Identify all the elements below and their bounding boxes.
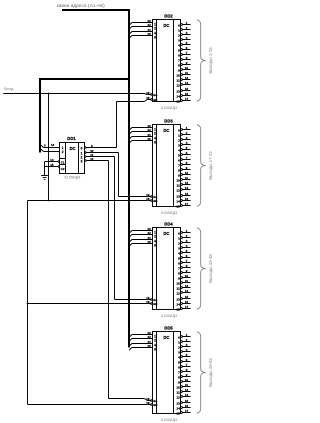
svg-text:15: 15 xyxy=(185,295,189,299)
svg-text:14: 14 xyxy=(185,289,189,293)
svg-text:11: 11 xyxy=(185,71,188,75)
svg-text:DC: DC xyxy=(163,23,169,28)
svg-text:4: 4 xyxy=(178,44,180,48)
label К155ИД4 xyxy=(65,176,81,180)
pin number 3 xyxy=(44,143,46,147)
svg-text:12: 12 xyxy=(176,396,180,400)
svg-text:10: 10 xyxy=(176,282,180,286)
svg-text:4: 4 xyxy=(178,149,180,153)
brace for DD5 outputs xyxy=(197,332,206,414)
svg-text:BA: BA xyxy=(153,93,157,97)
svg-text:16: 16 xyxy=(185,300,189,304)
svg-text:12: 12 xyxy=(90,157,94,161)
svg-text:2: 2 xyxy=(154,339,156,343)
svg-text:8: 8 xyxy=(154,244,156,248)
wire: DD1 out3 to DD5 strobe (down at x108) xyxy=(86,161,147,401)
svg-text:10: 10 xyxy=(176,386,180,390)
label DD4 xyxy=(164,222,173,227)
svg-text:5: 5 xyxy=(178,154,180,158)
svg-text:15: 15 xyxy=(50,163,54,167)
svg-text:14: 14 xyxy=(176,303,180,307)
svg-text:17: 17 xyxy=(185,202,189,206)
svg-text:16: 16 xyxy=(185,92,189,96)
svg-text:5: 5 xyxy=(178,361,180,365)
svg-text:10: 10 xyxy=(185,66,189,70)
svg-text:15: 15 xyxy=(185,192,189,196)
svg-text:22: 22 xyxy=(147,335,151,339)
net label Выходы 33-48 xyxy=(208,254,213,283)
svg-text:16: 16 xyxy=(185,197,189,201)
svg-text:6: 6 xyxy=(178,54,180,58)
svg-text:DD4: DD4 xyxy=(164,222,173,227)
label К155ИД3 under DD4 xyxy=(161,314,177,318)
wire: Вход horizontal to DD4 pin 18 xyxy=(28,303,148,305)
label К155ИД3 under DD2 xyxy=(161,106,177,110)
svg-text:20: 20 xyxy=(147,137,151,141)
svg-text:2: 2 xyxy=(178,242,180,246)
svg-text:3: 3 xyxy=(178,351,180,355)
wire: DD1 address input A (pin 13) xyxy=(41,145,60,148)
svg-text:11: 11 xyxy=(177,79,181,83)
svg-text:16: 16 xyxy=(185,404,189,408)
svg-text:DD3: DD3 xyxy=(164,119,173,124)
svg-text:15: 15 xyxy=(176,205,180,209)
wire: DD1 address input B (pin 3) xyxy=(41,149,60,152)
svg-text:13: 13 xyxy=(185,284,189,288)
pin number 13 xyxy=(51,143,55,147)
node: junction at (48.5,200.5) xyxy=(48,200,50,202)
svg-text:2: 2 xyxy=(178,139,180,143)
svg-text:10: 10 xyxy=(176,74,180,78)
svg-text:9: 9 xyxy=(178,69,180,73)
svg-text:Выходы 1-16: Выходы 1-16 xyxy=(208,47,213,74)
svg-text:DC: DC xyxy=(70,146,76,151)
net label Выходы 17-32 xyxy=(208,151,213,180)
svg-text:BB: BB xyxy=(153,403,157,407)
svg-text:DC: DC xyxy=(163,231,169,236)
label DD1 xyxy=(67,136,76,141)
svg-text:0: 0 xyxy=(178,129,180,133)
svg-text:13: 13 xyxy=(185,181,189,185)
svg-text:3: 3 xyxy=(178,144,180,148)
svg-text:1: 1 xyxy=(178,134,180,138)
svg-text:13: 13 xyxy=(185,388,189,392)
svg-text:14: 14 xyxy=(50,158,54,162)
decoder DD2 body (К155ИД3) xyxy=(129,19,190,104)
svg-text:К155ИД3: К155ИД3 xyxy=(161,418,177,422)
svg-text:0: 0 xyxy=(178,24,180,28)
svg-text:10: 10 xyxy=(185,274,189,278)
svg-text:11: 11 xyxy=(185,279,188,283)
brace for DD2 outputs xyxy=(197,20,206,102)
ground xyxy=(41,176,48,180)
svg-text:19: 19 xyxy=(146,91,150,95)
wire: Вход horizontal to DD5 pin 18 xyxy=(28,404,148,406)
svg-text:20: 20 xyxy=(147,344,151,348)
svg-text:8: 8 xyxy=(154,36,156,40)
svg-text:13: 13 xyxy=(51,143,55,147)
svg-text:18: 18 xyxy=(146,401,150,405)
node: junction at (27.5,303.5) xyxy=(27,303,29,305)
svg-text:10: 10 xyxy=(176,179,180,183)
svg-text:0: 0 xyxy=(178,232,180,236)
svg-text:13: 13 xyxy=(185,76,189,80)
label DD3 xyxy=(164,119,173,124)
svg-text:К155ИД3: К155ИД3 xyxy=(161,106,177,110)
svg-text:8: 8 xyxy=(178,272,180,276)
svg-text:14: 14 xyxy=(176,407,180,411)
svg-text:14: 14 xyxy=(176,95,180,99)
svg-text:8: 8 xyxy=(154,141,156,145)
net label: Шина адреса (А1-А6) xyxy=(57,3,105,8)
label DD5 xyxy=(164,326,173,331)
svg-text:15: 15 xyxy=(176,100,180,104)
wire: Вход horizontal to DD2 pin 19 xyxy=(3,94,147,95)
svg-text:6: 6 xyxy=(178,366,180,370)
svg-text:0: 0 xyxy=(178,336,180,340)
label К155ИД3 under DD5 xyxy=(161,418,177,422)
svg-text:Выходы 17-32: Выходы 17-32 xyxy=(208,151,213,180)
svg-text:BB: BB xyxy=(153,98,157,102)
wire: DD1 strobes to ground xyxy=(44,162,46,176)
svg-text:7: 7 xyxy=(178,164,180,168)
wire: DD1 out2 to DD4 strobe (down at x114) xyxy=(86,157,147,300)
wire: Вход vertical drop x27 xyxy=(27,201,29,405)
svg-text:20: 20 xyxy=(147,32,151,36)
wire: Вход vertical drop x48 xyxy=(48,94,50,201)
label К155ИД3 under DD3 xyxy=(161,211,177,215)
svg-text:13: 13 xyxy=(176,90,180,94)
net label Выходы 49-64 xyxy=(208,358,213,387)
svg-text:DC: DC xyxy=(163,128,169,133)
svg-text:8: 8 xyxy=(154,348,156,352)
svg-text:7: 7 xyxy=(178,267,180,271)
pin: DD1 strobe 14 with inversion circle xyxy=(45,158,60,163)
node: Вход branch junction xyxy=(48,93,50,95)
svg-text:4: 4 xyxy=(178,356,180,360)
brace for DD4 outputs xyxy=(197,228,206,310)
svg-text:DC: DC xyxy=(163,335,169,340)
svg-text:5: 5 xyxy=(178,257,180,261)
decoder DD1 body (К155ИД4) xyxy=(60,143,85,174)
svg-text:2: 2 xyxy=(178,34,180,38)
svg-text:11: 11 xyxy=(177,287,181,291)
svg-text:DD5: DD5 xyxy=(164,326,173,331)
decoder DD5 body (К155ИД3) xyxy=(129,331,190,416)
svg-text:14: 14 xyxy=(185,393,189,397)
svg-text:11: 11 xyxy=(185,383,188,387)
svg-text:5: 5 xyxy=(178,49,180,53)
svg-text:11: 11 xyxy=(177,391,181,395)
pins: DD1 outputs 0-3 with circles and pin numbers xyxy=(81,144,94,164)
svg-text:7: 7 xyxy=(178,59,180,63)
bus: address branch to DD1 vertical xyxy=(39,78,41,153)
svg-text:10: 10 xyxy=(185,378,189,382)
svg-text:12: 12 xyxy=(176,292,180,296)
svg-text:18: 18 xyxy=(146,197,150,201)
svg-text:14: 14 xyxy=(185,81,189,85)
svg-text:C2: C2 xyxy=(61,167,65,171)
net label: Вход xyxy=(4,86,14,91)
svg-text:3: 3 xyxy=(178,247,180,251)
svg-text:15: 15 xyxy=(176,412,180,416)
svg-text:14: 14 xyxy=(185,186,189,190)
svg-text:18: 18 xyxy=(146,96,150,100)
svg-text:К155ИД3: К155ИД3 xyxy=(161,211,177,215)
svg-text:9: 9 xyxy=(178,174,180,178)
svg-text:14: 14 xyxy=(176,200,180,204)
svg-text:20: 20 xyxy=(147,240,151,244)
svg-text:2: 2 xyxy=(62,150,64,154)
svg-text:1: 1 xyxy=(178,29,180,33)
decoder DD4 body (К155ИД3) xyxy=(129,227,190,312)
svg-text:8: 8 xyxy=(178,376,180,380)
svg-text:9: 9 xyxy=(178,381,180,385)
svg-text:DD2: DD2 xyxy=(164,14,173,19)
svg-text:3: 3 xyxy=(81,160,83,164)
svg-text:К155ИД3: К155ИД3 xyxy=(161,314,177,318)
svg-text:17: 17 xyxy=(185,97,189,101)
svg-text:10: 10 xyxy=(185,171,189,175)
svg-text:Выходы 33-48: Выходы 33-48 xyxy=(208,254,213,283)
svg-text:22: 22 xyxy=(147,128,151,132)
svg-text:2: 2 xyxy=(178,346,180,350)
svg-text:8: 8 xyxy=(178,169,180,173)
wire: DD1 out1 to DD3 strobe (down at x118) xyxy=(86,153,147,197)
svg-text:К155ИД4: К155ИД4 xyxy=(65,176,81,180)
svg-text:12: 12 xyxy=(176,84,180,88)
bus: address bus vertical main xyxy=(128,9,130,348)
svg-text:11: 11 xyxy=(177,184,181,188)
svg-text:6: 6 xyxy=(178,159,180,163)
label DD2 xyxy=(164,14,173,19)
pin: DD1 strobe 15 with inversion circle xyxy=(45,163,60,168)
svg-text:22: 22 xyxy=(147,23,151,27)
net label Выходы 1-16 xyxy=(208,47,213,74)
wire: Вход horizontal to DD3 pin 18 xyxy=(28,200,148,202)
svg-text:2: 2 xyxy=(154,132,156,136)
svg-text:15: 15 xyxy=(176,308,180,312)
bus: address branch to DD1 horizontal xyxy=(39,78,130,80)
svg-text:2: 2 xyxy=(154,27,156,31)
svg-text:8: 8 xyxy=(178,64,180,68)
bus: address bus horizontal xyxy=(62,9,130,11)
svg-text:17: 17 xyxy=(185,305,189,309)
svg-text:13: 13 xyxy=(176,195,180,199)
svg-text:4: 4 xyxy=(178,252,180,256)
svg-text:13: 13 xyxy=(176,298,180,302)
svg-text:3: 3 xyxy=(178,39,180,43)
svg-text:12: 12 xyxy=(176,189,180,193)
svg-text:15: 15 xyxy=(185,399,189,403)
svg-text:15: 15 xyxy=(185,87,189,91)
svg-text:BB: BB xyxy=(153,199,157,203)
svg-text:DD1: DD1 xyxy=(67,136,76,141)
svg-text:11: 11 xyxy=(185,176,188,180)
wire: DD1 out0 to DD2 strobe (up at x116) xyxy=(86,100,147,148)
svg-text:BB: BB xyxy=(153,302,157,306)
svg-text:9: 9 xyxy=(178,277,180,281)
svg-text:0: 0 xyxy=(81,147,83,151)
svg-text:Шина адреса (А1-А6): Шина адреса (А1-А6) xyxy=(57,3,105,8)
svg-text:Выходы 49-64: Выходы 49-64 xyxy=(208,358,213,387)
svg-text:C1: C1 xyxy=(61,160,65,164)
svg-text:1: 1 xyxy=(178,237,180,241)
brace for DD3 outputs xyxy=(197,125,206,207)
decoder DD3 body (К155ИД3) xyxy=(129,124,190,209)
svg-text:3: 3 xyxy=(44,143,46,147)
svg-text:1: 1 xyxy=(178,341,180,345)
svg-text:7: 7 xyxy=(178,371,180,375)
svg-text:18: 18 xyxy=(146,300,150,304)
svg-text:Вход: Вход xyxy=(4,86,14,91)
svg-text:17: 17 xyxy=(185,409,189,413)
svg-text:6: 6 xyxy=(178,262,180,266)
svg-text:2: 2 xyxy=(154,235,156,239)
svg-text:13: 13 xyxy=(176,402,180,406)
svg-text:22: 22 xyxy=(147,231,151,235)
